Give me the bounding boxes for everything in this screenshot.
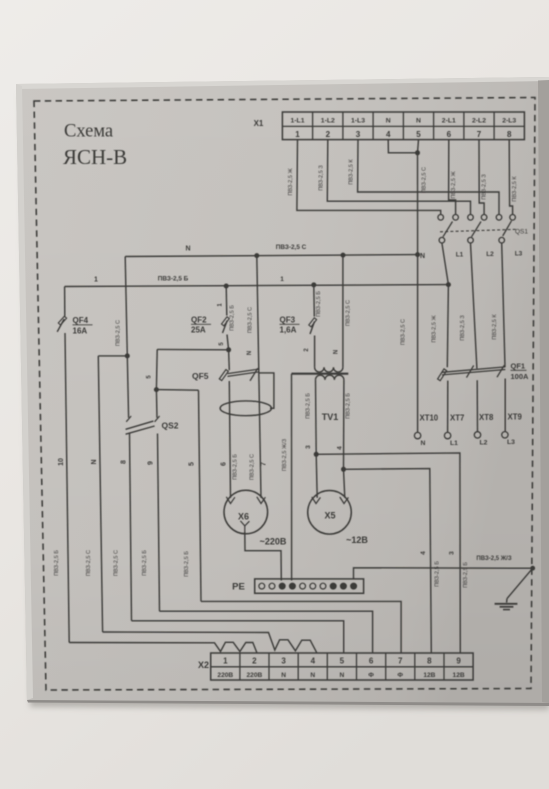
wire QF5 elbow to loop [260, 373, 274, 408]
svg-text:QF2: QF2 [191, 316, 207, 325]
node N join X1 [415, 150, 420, 155]
svg-text:220В: 220В [217, 672, 233, 679]
svg-text:N: N [185, 246, 190, 253]
svg-text:2-L3: 2-L3 [502, 117, 516, 124]
node L1 from QS1 [446, 282, 451, 287]
PE hole 2 [269, 583, 275, 589]
svg-text:ПВЗ-2,5 Б: ПВЗ-2,5 Б [306, 393, 312, 419]
shadow under plate [20, 88, 549, 710]
svg-text:1: 1 [223, 657, 228, 666]
svg-text:7: 7 [477, 130, 482, 139]
PE hole 9 filled [341, 583, 347, 589]
node N main [415, 252, 420, 257]
wire TV1 primary to N bus [342, 255, 344, 367]
svg-text:N: N [340, 672, 345, 679]
wire 5 to X2 [199, 390, 202, 601]
svg-text:5: 5 [416, 130, 421, 139]
svg-text:4: 4 [420, 551, 427, 555]
wire X6 to PE [245, 532, 281, 581]
QS2 blade upper [126, 421, 154, 429]
svg-text:X5: X5 [324, 511, 335, 521]
dashed border frame [34, 98, 535, 691]
wire 4 TV1 secondary right [343, 380, 345, 469]
svg-text:QS2: QS2 [162, 421, 179, 431]
node N branch [125, 353, 130, 358]
svg-text:ПВЗ-2,5 С: ПВЗ-2,5 С [250, 454, 256, 480]
svg-text:220В: 220В [247, 672, 263, 679]
wire to earth symbol [507, 568, 533, 598]
wire X1-7 to QS1 pole2 right [479, 140, 484, 215]
lamp X5 right contact [340, 497, 349, 504]
terminal block X1 [282, 112, 524, 140]
svg-text:ПВЗ-2,5 Б: ПВЗ-2,5 Б [230, 305, 236, 331]
svg-text:N: N [416, 117, 421, 124]
svg-text:ПВЗ-2,5 З: ПВЗ-2,5 З [482, 174, 488, 200]
svg-text:100А: 100А [511, 372, 530, 381]
svg-text:ПВЗ-2,5 С: ПВЗ-2,5 С [248, 307, 254, 333]
svg-text:N: N [310, 672, 315, 679]
earth symbol [506, 599, 508, 603]
svg-text:1: 1 [94, 277, 98, 284]
plate left bevel edge [16, 84, 33, 700]
wire 4 to X2-8 [344, 469, 432, 653]
svg-text:2-L2: 2-L2 [472, 117, 486, 124]
svg-text:QS1: QS1 [515, 229, 528, 236]
wire X1-6 to QS1 pole1 right [449, 140, 456, 215]
wire PE to earth electrode [354, 568, 533, 579]
svg-text:ПВЗ-2,5 С: ПВЗ-2,5 С [276, 244, 307, 251]
svg-text:16А: 16А [73, 327, 88, 336]
wire 7 N to lamp X6 right [257, 256, 261, 498]
terminal XT10 [414, 432, 420, 438]
PE hole 1 [259, 583, 265, 589]
wire L1 bus horizontal [65, 285, 449, 287]
wire X1-5 N drop [418, 140, 419, 153]
wire L1 to QF1 [447, 285, 448, 368]
svg-text:ПВЗ-2,5 С: ПВЗ-2,5 С [116, 320, 122, 346]
plate bottom edge line [27, 700, 549, 706]
svg-text:N: N [386, 117, 391, 124]
PE hole 6 [310, 583, 316, 589]
node L1 to QF2 [224, 284, 229, 289]
wire 8 elbow to X2-5 [132, 621, 344, 653]
svg-text:N: N [91, 459, 98, 464]
wire QS1 L3 out to QF1 [502, 243, 505, 367]
svg-text:9: 9 [456, 657, 461, 666]
wire 3 to lamp X5 left [316, 454, 317, 498]
svg-text:~12В: ~12В [346, 535, 368, 545]
svg-text:ПВЗ-2,5 К: ПВЗ-2,5 К [349, 159, 355, 185]
svg-text:4: 4 [337, 446, 344, 450]
svg-text:3: 3 [281, 657, 286, 666]
svg-text:X1: X1 [254, 119, 264, 128]
wire N from X1 down [417, 153, 419, 255]
svg-text:3: 3 [356, 130, 361, 139]
svg-text:ПВЗ-2,5 К: ПВЗ-2,5 К [512, 176, 518, 202]
svg-text:XT9: XT9 [508, 413, 523, 422]
wire 4 to lamp X5 right [344, 469, 345, 498]
svg-text:L2: L2 [486, 251, 494, 258]
svg-text:ПВЗ-2,5 Б: ПВЗ-2,5 Б [142, 550, 148, 576]
wire L1 bus to QF2 [225, 286, 228, 316]
lamp X6 left contact [226, 497, 235, 504]
svg-text:1: 1 [295, 130, 300, 139]
svg-text:ПВЗ-2,5 Ж: ПВЗ-2,5 Ж [451, 171, 457, 199]
PE hole 8 filled [330, 583, 336, 589]
circuit breaker QF1 [442, 367, 505, 372]
svg-text:L3: L3 [507, 439, 515, 446]
svg-text:QF5: QF5 [192, 371, 209, 381]
terminal XT7 [444, 432, 450, 438]
svg-text:6: 6 [221, 462, 228, 466]
QF5 bar lower [228, 372, 260, 377]
wire N to XT10 [417, 255, 419, 433]
svg-text:ПВЗ-2,5 С: ПВЗ-2,5 С [114, 550, 120, 576]
svg-text:N: N [281, 672, 286, 679]
svg-text:ПВЗ-2,5 С: ПВЗ-2,5 С [346, 300, 352, 326]
svg-text:12В: 12В [453, 672, 465, 679]
terminal XT9 [502, 432, 508, 438]
QS1 blade 2 [472, 222, 482, 237]
node earth [530, 566, 535, 571]
svg-text:ПВЗ-2,5 С: ПВЗ-2,5 С [422, 167, 428, 193]
wire X1-1 to QS1 pole1 left [297, 140, 441, 215]
node wire 3 branch [314, 452, 319, 457]
svg-text:X6: X6 [238, 512, 249, 522]
node N to TV1 [341, 253, 346, 258]
wire QF2 out [227, 335, 229, 350]
svg-text:Схема: Схема [64, 122, 113, 142]
svg-text:8: 8 [507, 130, 512, 139]
lamp X6 [224, 490, 268, 534]
svg-text:ПВЗ-2,5 Ж: ПВЗ-2,5 Ж [432, 315, 438, 343]
svg-text:7: 7 [398, 657, 403, 666]
svg-text:6: 6 [369, 657, 374, 666]
svg-text:8: 8 [121, 460, 128, 464]
QS2 left contact tick [126, 416, 131, 422]
svg-text:3: 3 [449, 551, 456, 555]
wire 10 elbow to X2-1,2 [69, 642, 257, 653]
wire N bus horizontal [125, 255, 417, 257]
wire net5 down [155, 349, 158, 389]
QS1 blade 3 [503, 221, 512, 236]
lamp X6 right contact [257, 497, 266, 504]
mounting plate [16, 77, 549, 703]
wire 9 QS2 right out [158, 434, 160, 612]
svg-text:N: N [247, 351, 253, 355]
svg-text:ЯСН-В: ЯСН-В [63, 145, 127, 169]
wire QF1 to XT7 [447, 381, 449, 433]
svg-text:N: N [334, 350, 340, 354]
svg-text:2: 2 [326, 130, 331, 139]
svg-text:ПВЗ-2,5 Б: ПВЗ-2,5 Б [346, 393, 352, 419]
lamp X5 left contact [312, 497, 321, 504]
PE bar [255, 579, 364, 593]
lamp X6 bottom contact [240, 521, 249, 526]
svg-text:QF3: QF3 [280, 316, 296, 325]
svg-text:ПВЗ-2,5 Б: ПВЗ-2,5 Б [54, 550, 60, 576]
PE hole 3 filled [279, 583, 285, 589]
svg-text:N: N [420, 253, 425, 260]
svg-text:TV1: TV1 [322, 412, 339, 422]
svg-text:XT8: XT8 [479, 413, 494, 422]
svg-text:ПВЗ-2,5 З: ПВЗ-2,5 З [460, 315, 466, 341]
svg-text:~220В: ~220В [260, 537, 287, 547]
PE hole 7 [320, 583, 326, 589]
wire 8 QS2 left out [130, 434, 132, 621]
QF4 blade [57, 319, 64, 332]
QF2 blade [223, 321, 228, 334]
svg-text:XT7: XT7 [450, 414, 464, 423]
svg-text:8: 8 [427, 657, 432, 666]
wire N to X2 [98, 356, 102, 632]
node net5 branch [154, 387, 159, 392]
svg-text:Ф: Ф [368, 672, 374, 679]
wire N branch to QS2 left pole [127, 356, 128, 418]
QS2 right contact tick [155, 416, 160, 422]
current transformer loop [220, 401, 271, 416]
transformer TV1 [315, 367, 343, 372]
wire X1-3 to QS1 pole3 left [358, 140, 499, 215]
wire N elbow to X2-3,4 [103, 632, 317, 653]
wire QF1 to XT9 [504, 379, 506, 432]
svg-text:1: 1 [280, 276, 284, 283]
PE hole 5 [300, 583, 306, 589]
svg-text:10: 10 [58, 458, 65, 466]
svg-text:6: 6 [447, 130, 452, 139]
QF3 blade [310, 322, 315, 335]
svg-text:L2: L2 [480, 440, 488, 447]
svg-text:ПВЗ-2,5 К: ПВЗ-2,5 К [492, 314, 498, 340]
wire QF3 out to TV1 [314, 336, 316, 368]
wire N branch left [98, 355, 127, 357]
wire 3 TV1 secondary left [315, 380, 318, 454]
lamp X5 [308, 491, 352, 535]
QS1 blade 1 [443, 222, 453, 237]
QS1 linkage dashed [440, 229, 518, 232]
TV1 core [292, 373, 349, 375]
svg-text:3: 3 [305, 445, 312, 449]
QF1 pole stroke 2 [467, 365, 474, 377]
svg-text:XT10: XT10 [420, 414, 439, 423]
svg-text:L1: L1 [456, 252, 464, 259]
svg-text:ПВЗ-2,5 Б: ПВЗ-2,5 Б [435, 561, 441, 587]
wire 10 QF4 out [65, 333, 69, 643]
svg-text:X2: X2 [198, 660, 209, 670]
svg-text:Ф: Ф [397, 672, 403, 679]
svg-text:9: 9 [148, 461, 155, 465]
svg-text:ПВЗ-2,5 Ж: ПВЗ-2,5 Ж [288, 168, 294, 196]
QF5 cross stroke [250, 368, 258, 381]
svg-text:ПВЗ-2,5 Ж/З: ПВЗ-2,5 Ж/З [476, 556, 511, 562]
wire QS1 L2 out to QF1 [471, 243, 477, 368]
svg-text:ПВЗ-2,5 Б: ПВЗ-2,5 Б [233, 454, 239, 480]
wire to QS2 right pole [155, 390, 158, 418]
svg-text:ПВЗ-2,5 Ж/З: ПВЗ-2,5 Ж/З [282, 438, 288, 471]
svg-text:PE: PE [232, 582, 245, 593]
plate right edge strip [538, 80, 549, 703]
svg-text:ПВЗ-2,5 С: ПВЗ-2,5 С [401, 319, 407, 345]
wire 3 to X2-9 [316, 453, 460, 653]
QF1 pole stroke 3 [497, 365, 504, 377]
svg-text:ПВЗ-2,5 Б: ПВЗ-2,5 Б [158, 276, 189, 283]
svg-text:ПВЗ-2,5 Б: ПВЗ-2,5 Б [463, 562, 469, 588]
node wire 4 branch [341, 467, 346, 472]
svg-text:1-L2: 1-L2 [321, 117, 335, 124]
svg-text:2-L1: 2-L1 [442, 117, 456, 124]
PE hole 10 filled [351, 583, 357, 589]
wire L1 bus to QF3 [313, 285, 316, 317]
svg-text:QF4: QF4 [73, 316, 89, 325]
node QF2 output [226, 347, 231, 352]
wire net5 horizontal [157, 348, 228, 350]
PE hole 4 filled [290, 583, 296, 589]
wire X1-2 to QS1 pole2 left [327, 140, 470, 215]
wire QF2 out to QF5 [228, 350, 231, 370]
wire QF1 to XT8 [476, 380, 478, 432]
svg-text:4: 4 [311, 657, 316, 666]
svg-text:N: N [421, 440, 426, 447]
QS2 blade lower [126, 426, 155, 434]
wire 9 elbow to X2-6 [160, 611, 373, 653]
plate top bevel edge [16, 77, 549, 89]
wire X1-8 to QS1 pole3 right [509, 140, 512, 215]
wire L1 bus to QF4 [64, 287, 66, 317]
svg-text:7: 7 [261, 462, 268, 466]
svg-text:1-L1: 1-L1 [291, 117, 305, 124]
wire net5 branch right [156, 389, 198, 392]
wire QS1 L1 out [442, 243, 449, 285]
node L1 to QF3 [311, 282, 316, 287]
svg-text:5: 5 [189, 462, 196, 466]
terminal XT8 [474, 432, 480, 438]
svg-text:25А: 25А [191, 326, 206, 335]
svg-text:QF1: QF1 [511, 362, 526, 371]
svg-text:ПВЗ-2,5 З: ПВЗ-2,5 З [318, 165, 324, 191]
wire X1-4 N stub [388, 140, 416, 153]
wire 5 elbow to X2-7 [201, 601, 401, 652]
QF5 bar upper [228, 369, 260, 374]
svg-text:5: 5 [340, 657, 345, 666]
node N to lamp X6 [254, 253, 259, 258]
wire N bus down left [125, 257, 127, 356]
svg-text:12В: 12В [423, 672, 435, 679]
svg-text:ПВЗ-2,5 С: ПВЗ-2,5 С [86, 550, 92, 576]
svg-text:ПВЗ-2,5 Б: ПВЗ-2,5 Б [184, 551, 190, 577]
svg-text:ПВЗ-2,5 Б: ПВЗ-2,5 Б [316, 291, 322, 317]
svg-text:4: 4 [386, 130, 391, 139]
terminal block X2 [211, 653, 473, 680]
svg-text:1-L3: 1-L3 [351, 117, 365, 124]
svg-text:L1: L1 [450, 440, 458, 447]
switch QS1 [438, 215, 444, 221]
wire earth from TV1 core to PE [291, 374, 293, 581]
wire 6 to lamp X6 left [229, 381, 230, 498]
svg-text:1,6А: 1,6А [280, 326, 297, 335]
svg-text:2: 2 [252, 657, 257, 666]
svg-text:L3: L3 [515, 251, 523, 258]
